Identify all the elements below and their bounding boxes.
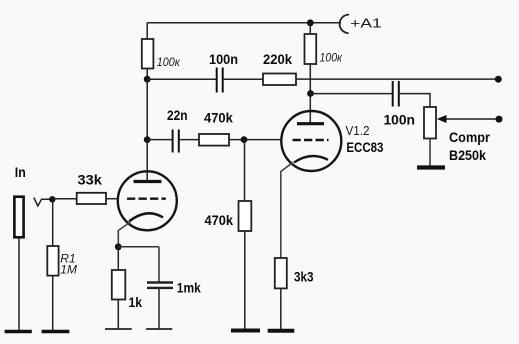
wire to 22n [147, 139, 172, 141]
wire R1 to ground [52, 276, 54, 330]
grid V1.1 (dashed) [127, 197, 166, 199]
wire 100k#2 top lead [309, 23, 311, 34]
ground under 470k [231, 329, 260, 333]
node 470k-shunt junction [241, 136, 248, 143]
wire anode2 down [309, 64, 311, 124]
wire 3k3 to ground [280, 288, 282, 329]
grid V1.2 (dashed) [293, 139, 329, 141]
svg-text:100к: 100к [320, 51, 344, 65]
svg-text:V1.2: V1.2 [346, 124, 370, 138]
svg-text:100n: 100n [384, 111, 416, 127]
cathode V1.2 [294, 156, 328, 163]
resistor 33k [77, 193, 106, 204]
svg-text:33k: 33k [78, 172, 103, 188]
wire shunt 470k top lead [244, 140, 246, 201]
resistor 3k3 (cathode V1.2) [275, 258, 287, 288]
ground under 3k3 [268, 329, 295, 333]
wire 1k to ground [117, 300, 119, 329]
svg-text:220k: 220k [263, 51, 292, 67]
ground under pot [417, 165, 445, 169]
resistor 100k (left anode load) [142, 39, 154, 69]
wire input to 33k [52, 198, 76, 200]
terminal dot rail2 right [495, 76, 502, 83]
wire 470k to grid2 [229, 139, 282, 141]
ground under 1k [105, 328, 132, 330]
potentiometer B250k body [424, 107, 436, 139]
wire anode1 down [146, 79, 148, 181]
capacitor 100n (output coupling) [392, 81, 394, 107]
ground under R1 [42, 330, 70, 334]
wire jack to ground [18, 237, 20, 330]
resistor 100k (right anode load) [305, 34, 317, 64]
svg-text:In: In [15, 164, 26, 180]
svg-text:22n: 22n [167, 107, 188, 123]
wire rail2 left [147, 78, 217, 80]
svg-text:100n: 100n [209, 51, 238, 67]
wire cathode1 to 1k [117, 247, 119, 270]
wire 33k to grid1 [106, 198, 118, 200]
junction dot top rail at A1 branch [307, 19, 314, 26]
anode plate V1.1 [134, 180, 162, 183]
node grid2 takeoff junction [144, 136, 151, 143]
wire cathode1 lead [118, 222, 130, 245]
triode V1.2 envelope [281, 111, 341, 171]
resistor 470k (series grid) [199, 134, 229, 146]
ground under jack [5, 330, 32, 334]
wire 1mk top lead [158, 247, 160, 283]
svg-text:+A1: +A1 [350, 15, 382, 30]
cathode V1.1 [129, 213, 163, 221]
anode plate V1.2 [297, 122, 324, 125]
node cathode1 junction [115, 243, 122, 250]
resistor 470k (grid leak V1.2) [239, 201, 252, 231]
wire input to R1 [52, 199, 54, 246]
wire 100k#1 bottom lead [146, 69, 148, 80]
wire cap to 220k [223, 78, 263, 80]
wire top rail [147, 22, 341, 24]
potentiometer wiper arrow [444, 118, 499, 120]
terminal dot wiper [496, 116, 503, 123]
node input V marker [34, 198, 52, 207]
wire rail2 right [296, 78, 498, 80]
node anode1 junction [144, 76, 151, 83]
capacitor 100n (coupling, top) [216, 68, 218, 93]
wire anode2 to 100n#2 [311, 93, 393, 95]
triode V1.1 envelope [118, 171, 177, 230]
input jack [14, 197, 23, 238]
capacitor 1mk (cathode bypass) [147, 281, 173, 283]
wire 100n#2 to pot [399, 94, 430, 107]
svg-text:470k: 470k [205, 212, 234, 228]
wire 1mk to ground [158, 288, 160, 328]
node input junction [49, 196, 55, 202]
terminal +A1 [340, 15, 350, 34]
wire 22n to 470k [179, 139, 199, 141]
svg-text:470k: 470k [204, 109, 233, 125]
wire pot to ground [429, 139, 431, 166]
svg-text:3k3: 3k3 [294, 269, 314, 285]
svg-text:Compr: Compr [449, 129, 490, 145]
wire shunt 470k bottom lead [244, 231, 246, 330]
resistor 220k [263, 74, 296, 86]
svg-text:100к: 100к [157, 55, 181, 69]
node anode2 junction [307, 90, 314, 97]
resistor R1 1M [47, 246, 58, 276]
resistor 1k [112, 270, 126, 300]
svg-text:1mk: 1mk [177, 280, 201, 296]
capacitor 22n (coupling) [172, 130, 174, 153]
svg-text:1k: 1k [129, 294, 143, 310]
wire 100k#1 top lead [146, 23, 148, 39]
svg-text:ECC83: ECC83 [346, 139, 383, 155]
svg-text:B250k: B250k [449, 147, 486, 163]
wire cathode1 to 1mk [118, 246, 159, 248]
ground under 1mk [146, 328, 172, 330]
svg-text:1M: 1M [60, 263, 77, 277]
wire cathode2 lead to 3k3 [281, 162, 293, 258]
